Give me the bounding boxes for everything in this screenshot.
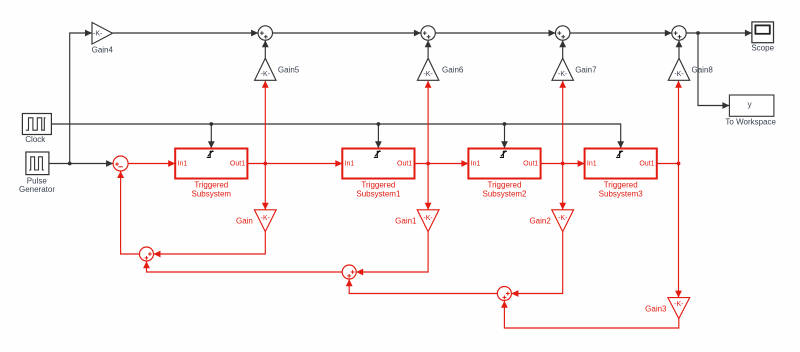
- wire Gain5 output up to sum: [264, 40, 266, 58]
- svg-text:In1: In1: [178, 161, 188, 168]
- svg-text:-K-: -K-: [674, 301, 684, 308]
- wire sum3 output to sum2: [349, 279, 497, 293]
- svg-text:Out1: Out1: [230, 161, 245, 168]
- svg-text:-K-: -K-: [558, 71, 568, 78]
- wire trigger drop to Triggered Subsystem1: [377, 124, 379, 148]
- wire sum2 output to sum1: [147, 261, 343, 272]
- svg-text:In1: In1: [471, 161, 481, 168]
- svg-text:Gain2: Gain2: [529, 217, 551, 226]
- wire Gain7 output up to sum: [562, 40, 564, 58]
- wire Gain2 output to sum3: [512, 232, 563, 294]
- node trigger junction 3: [503, 122, 507, 126]
- svg-text:Subsystem1: Subsystem1: [356, 189, 401, 198]
- sum feedback sum1: [140, 247, 154, 261]
- svg-text:-K-: -K-: [423, 215, 433, 222]
- gain Gain: [254, 210, 276, 232]
- wire branch up to Gain8: [678, 81, 680, 164]
- svg-text:Gain5: Gain5: [278, 66, 300, 75]
- subsystem Triggered Subsystem: [175, 149, 247, 179]
- wire Clock output trigger bus: [50, 124, 621, 148]
- svg-text:-K-: -K-: [261, 71, 271, 78]
- sum top sum A: [258, 26, 272, 40]
- gain Gain4: [92, 22, 113, 44]
- wire sum A to sum B: [273, 32, 421, 34]
- sum input sum (plus minus): [113, 156, 128, 171]
- wire input sum to In1 of Triggered Subsystem: [128, 163, 175, 165]
- node trigger junction 1: [209, 122, 213, 126]
- wire trigger drop to Triggered Subsystem2: [504, 124, 506, 148]
- wire trigger drop to Triggered Subsystem: [210, 124, 212, 148]
- gain Gain2: [552, 210, 574, 232]
- svg-text:Gain1: Gain1: [395, 217, 417, 226]
- sum top sum C: [556, 26, 570, 40]
- svg-text:Gain: Gain: [236, 217, 253, 226]
- svg-text:Out1: Out1: [523, 161, 538, 168]
- gain Gain7: [552, 58, 573, 80]
- svg-text:In1: In1: [587, 161, 597, 168]
- wire sum1 output feedback to input sum: [121, 171, 140, 254]
- sum feedback sum2: [342, 265, 356, 279]
- node branch to To Workspace: [696, 31, 700, 35]
- wire Gain output to sum1: [154, 232, 266, 254]
- wire Gain1 output to sum2: [356, 232, 428, 272]
- wire branch down to Gain1: [427, 164, 429, 210]
- scope block Scope: [752, 22, 774, 43]
- svg-text:Subsystem: Subsystem: [192, 189, 232, 198]
- svg-text:-K-: -K-: [261, 215, 271, 222]
- wire branch down to Gain3: [678, 164, 680, 298]
- svg-text:Out1: Out1: [639, 161, 654, 168]
- svg-text:Generator: Generator: [19, 185, 55, 194]
- svg-text:Gain4: Gain4: [92, 45, 114, 54]
- wire branch down to Gain: [264, 164, 266, 210]
- wire Out1 Subsystem1 to In1 Subsystem2: [415, 163, 469, 165]
- svg-text:Clock: Clock: [25, 135, 46, 144]
- wire Out1 Subsystem2 to In1 Subsystem3: [541, 163, 585, 165]
- wire Gain3 output to sum3: [504, 301, 678, 328]
- wire Out1 Subsystem3 to branch node: [657, 163, 679, 165]
- svg-text:-K-: -K-: [558, 215, 568, 222]
- svg-text:Triggered: Triggered: [194, 181, 228, 190]
- wire branch down to Gain2: [562, 164, 564, 210]
- svg-text:-K-: -K-: [674, 71, 684, 78]
- subsystem Triggered Subsystem2: [468, 149, 540, 179]
- pulse generator block: [26, 152, 49, 175]
- svg-text:Out1: Out1: [397, 161, 412, 168]
- svg-text:Gain7: Gain7: [575, 66, 597, 75]
- sum top sum D: [672, 26, 686, 40]
- subsystem Triggered Subsystem3: [585, 149, 657, 179]
- svg-text:Gain8: Gain8: [692, 66, 714, 75]
- gain Gain6: [417, 58, 438, 80]
- wire branch up to Gain7: [562, 81, 564, 164]
- wire sum B to sum C: [435, 32, 555, 34]
- svg-text:To Workspace: To Workspace: [725, 117, 776, 126]
- svg-text:Scope: Scope: [751, 43, 774, 52]
- sum top sum B: [421, 26, 435, 40]
- node junction Out1 branch 3: [561, 162, 565, 166]
- wire branch up to Gain4 input: [70, 33, 92, 164]
- node junction Out1 branch 4: [677, 162, 681, 166]
- svg-text:Gain6: Gain6: [442, 66, 464, 75]
- gain Gain5: [255, 58, 276, 80]
- wire sum C to sum D: [570, 32, 672, 34]
- svg-text:-K-: -K-: [423, 71, 433, 78]
- sum feedback sum3: [497, 287, 511, 301]
- clock block Clock: [22, 114, 51, 135]
- svg-text:Subsystem2: Subsystem2: [482, 189, 527, 198]
- svg-text:-K-: -K-: [93, 31, 103, 38]
- gain Gain3: [668, 298, 690, 319]
- wire branch up to Gain6: [427, 81, 429, 164]
- wire branch down to To Workspace: [698, 33, 729, 106]
- svg-text:In1: In1: [345, 161, 355, 168]
- node junction Out1 branch 2: [426, 162, 430, 166]
- to workspace block: [729, 95, 774, 116]
- wire Gain4 output to sum A: [113, 32, 258, 34]
- svg-text:Gain3: Gain3: [645, 305, 667, 314]
- wire Gain6 output up to sum: [427, 40, 429, 58]
- subsystem Triggered Subsystem1: [342, 149, 414, 179]
- svg-text:y: y: [748, 100, 752, 109]
- wire Out1 Triggered Subsystem to In1 Subsystem1: [247, 163, 342, 165]
- svg-text:Triggered: Triggered: [361, 181, 395, 190]
- svg-text:Triggered: Triggered: [604, 181, 638, 190]
- wire Pulse Generator output to input sum: [47, 163, 113, 165]
- svg-text:Triggered: Triggered: [488, 181, 522, 190]
- svg-text:Subsystem3: Subsystem3: [599, 189, 644, 198]
- gain Gain8: [668, 58, 689, 80]
- wire branch up to Gain5: [264, 81, 266, 164]
- wire sum D to Scope: [686, 32, 752, 34]
- node trigger junction 2: [377, 122, 381, 126]
- node branch junction on Pulse Generator wire: [68, 162, 72, 166]
- node junction Out1 branch 1: [263, 162, 267, 166]
- wire Gain8 output up to sum: [678, 40, 680, 58]
- gain Gain1: [417, 210, 439, 232]
